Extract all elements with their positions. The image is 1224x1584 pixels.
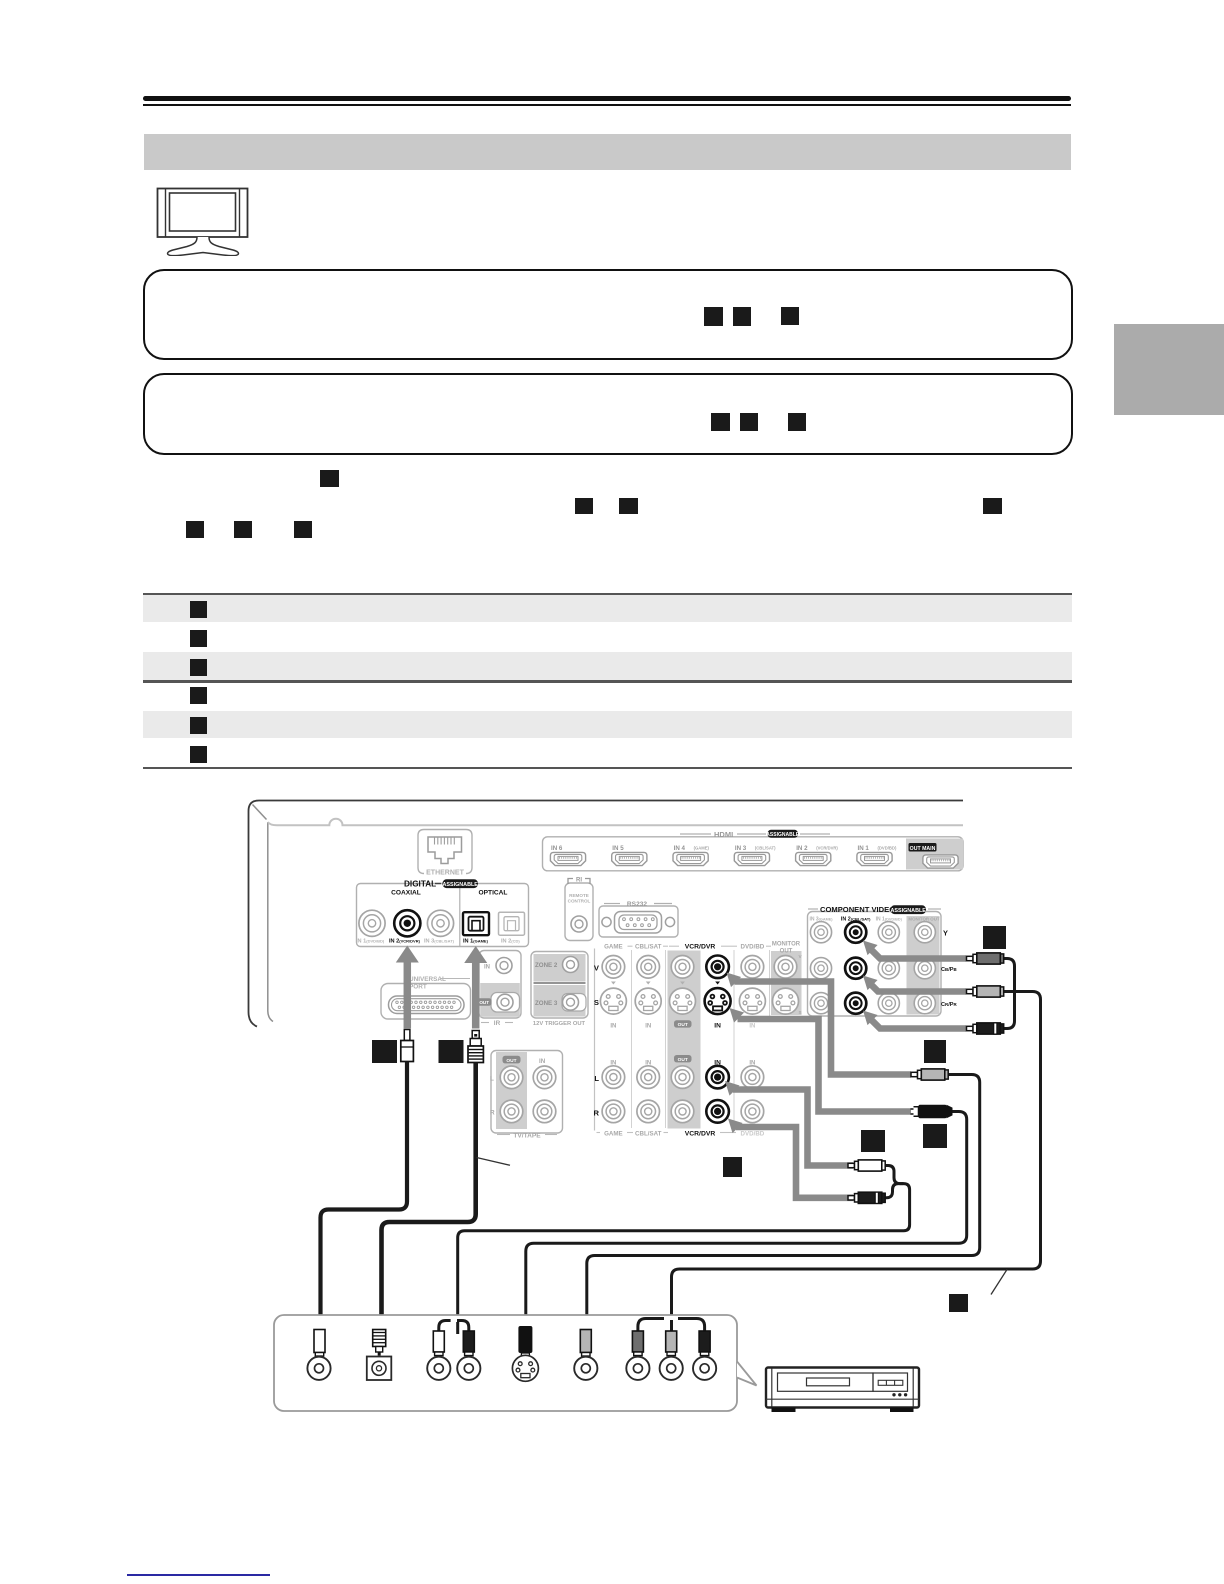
svg-text:CBL/SAT: CBL/SAT (635, 1131, 662, 1138)
audio R jack CBL/SAT (637, 1100, 660, 1123)
svg-text:CONTROL: CONTROL (568, 899, 591, 904)
composite video jack VCR/DVR IN (706, 956, 729, 979)
callout square: bundle (949, 1294, 968, 1312)
svg-text:UNIVERSAL: UNIVERSAL (409, 976, 446, 983)
S-video plug (911, 1105, 953, 1118)
note box 1 (143, 269, 1073, 360)
table (143, 593, 1072, 595)
svg-text:IN: IN (714, 1023, 721, 1030)
svg-text:(GAME): (GAME) (694, 846, 710, 851)
audio R jack VCR/DVR OUT (671, 1100, 694, 1123)
arrow + shaft into component CR IN 2 (863, 1011, 966, 1029)
component triple split (638, 1319, 664, 1332)
arrow + shaft into component CB IN 2 (863, 976, 966, 992)
section title bar (144, 134, 1071, 170)
ASSIGNABLE badge (DIGITAL) (443, 879, 479, 888)
audio L jack CBL/SAT (637, 1066, 660, 1089)
svg-text:GAME: GAME (604, 1131, 623, 1138)
svg-text:VCR/DVR: VCR/DVR (685, 944, 716, 951)
HDMI connector 2 (612, 852, 647, 865)
device CR jack (693, 1357, 716, 1380)
S row IN/OUT labels (610, 1020, 755, 1029)
TV/TAPE IN R jack (533, 1100, 556, 1123)
svg-text:Y: Y (943, 929, 948, 938)
S-video jack GAME (600, 988, 626, 1014)
svg-text:12V TRIGGER OUT: 12V TRIGGER OUT (533, 1021, 586, 1027)
matrix bottom labels (597, 1131, 765, 1138)
svg-text:IR: IR (494, 1020, 501, 1027)
optical cable plug (468, 1031, 483, 1063)
RS232 block (599, 901, 678, 937)
device coaxial jack (307, 1357, 330, 1380)
audio R jack GAME (602, 1100, 625, 1123)
callout square: S-video cable (923, 1124, 947, 1148)
svg-text:VCR/DVR: VCR/DVR (685, 1131, 716, 1138)
component CR plug (red) (967, 1023, 1004, 1034)
svg-text:R: R (490, 1110, 495, 1117)
callout square: audio cable (723, 1157, 742, 1177)
HDMI connector 3 (673, 852, 708, 865)
svg-text:OUT: OUT (780, 949, 793, 955)
svg-text:IN 1(DVD/BD): IN 1(DVD/BD) (356, 939, 385, 945)
composite video plug (yellow) (911, 1069, 948, 1080)
note box 2 (143, 373, 1073, 455)
svg-text:ZONE 2: ZONE 2 (535, 962, 558, 969)
audio R jack DVD/BD (741, 1100, 764, 1123)
svg-text:S: S (799, 1010, 803, 1016)
component CB plug (blue) (967, 986, 1004, 997)
UNIVERSAL PORT block (381, 976, 471, 1019)
ZONE 3 jack (563, 994, 579, 1010)
svg-text:IN 1: IN 1 (858, 845, 870, 852)
svg-text:IN 2(CD): IN 2(CD) (501, 939, 520, 945)
audio L jack VCR/DVR IN (706, 1066, 729, 1089)
svg-text:MONITOR: MONITOR (772, 942, 801, 948)
component CR plug into device (699, 1331, 710, 1362)
matrix top labels (604, 942, 802, 1017)
HDMI connector 6 (857, 852, 892, 865)
callout square: optical cable (439, 1040, 464, 1063)
svg-text:ASSIGNABLE: ASSIGNABLE (891, 908, 927, 914)
arrow + cable path into composite V IN (VCR/DVR) (727, 973, 912, 1075)
HDMI connector 4 (734, 852, 769, 865)
S-video cable (526, 1112, 967, 1335)
svg-text:GAME: GAME (604, 944, 623, 951)
audio R jack VCR/DVR IN (706, 1100, 729, 1123)
svg-text:COMPONENT VIDEO: COMPONENT VIDEO (820, 905, 895, 914)
svg-text:PORT: PORT (409, 984, 427, 991)
S-video jack VCR/DVR OUT (670, 988, 696, 1014)
leader line to cable bundle (991, 1270, 1007, 1295)
coaxial cable plug (401, 1030, 414, 1062)
component CR/PR jack IN 2 (CBL/SAT) (845, 993, 866, 1014)
ETHERNET port (418, 830, 472, 877)
svg-text:RI: RI (576, 878, 582, 884)
device optical jack (367, 1357, 392, 1381)
composite video jack DVD/BD (741, 956, 764, 979)
composite video jack VCR/DVR OUT (671, 956, 694, 979)
optical plug into device (373, 1330, 386, 1356)
svg-text:S: S (594, 998, 599, 1007)
paragraph reference squares (320, 470, 339, 487)
arrow + cable path into S-video IN (VCR/DVR) (730, 1008, 912, 1112)
callout square: component cable (983, 926, 1006, 949)
coaxial jack IN 1 (DVD/BD) (359, 910, 385, 936)
svg-text:OUT: OUT (506, 1058, 516, 1064)
callout square: composite video cable (924, 1040, 946, 1063)
svg-text:IN 4: IN 4 (674, 845, 686, 852)
svg-text:IN 6: IN 6 (551, 845, 563, 852)
TV/TAPE block (490, 1051, 563, 1140)
TV/TAPE IN L jack (533, 1066, 556, 1089)
coax plug into device (314, 1330, 325, 1363)
TV screen (170, 193, 236, 231)
svg-text:ZONE 3: ZONE 3 (535, 1000, 558, 1007)
leader line (cables) (477, 1158, 511, 1166)
TV outer body (158, 189, 248, 238)
svg-text:OUT: OUT (479, 1000, 489, 1005)
svg-text:OUT: OUT (678, 1057, 688, 1063)
svg-text:IN 3(CBL/SAT): IN 3(CBL/SAT) (424, 939, 455, 945)
S-video jack DVD/BD (739, 988, 765, 1014)
audio L jack GAME (602, 1066, 625, 1089)
svg-text:IN 5: IN 5 (612, 845, 624, 852)
IR IN jack (496, 958, 512, 974)
component Y jack MONITOR OUT (914, 922, 935, 943)
component video cable: Y-CR link (1004, 959, 1015, 1029)
svg-text:OUT: OUT (678, 1022, 688, 1028)
audio cable (L+R merge) (885, 1166, 904, 1184)
device CB jack (660, 1357, 683, 1380)
svg-text:COAXIAL: COAXIAL (391, 890, 421, 897)
S-video jack VCR/DVR IN (705, 988, 731, 1014)
svg-text:MONITOR OUT: MONITOR OUT (908, 917, 939, 922)
svg-text:RS232: RS232 (627, 901, 647, 908)
AV receiver rear panel outline (249, 801, 964, 1027)
svg-text:R: R (594, 1108, 600, 1117)
composite video cable (587, 1075, 980, 1335)
component column labels (809, 917, 939, 923)
TV/TAPE OUT badge (503, 1056, 521, 1064)
composite plug into device (580, 1330, 591, 1363)
component CR/PR jack IN 1 (DVD/BD) (878, 993, 899, 1014)
device audio R jack (457, 1357, 480, 1380)
footer link line (127, 1574, 270, 1576)
svg-text:IN: IN (539, 1058, 546, 1065)
COMPONENT VIDEO section box (808, 912, 942, 1017)
AV input matrix group (595, 949, 770, 1131)
audio row IN/OUT labels (610, 1055, 755, 1067)
svg-text:DIGITAL: DIGITAL (404, 880, 436, 889)
TV speaker panels (165, 189, 167, 238)
composite video jack GAME (602, 956, 625, 979)
svg-text:DVD/BD: DVD/BD (741, 944, 765, 951)
svg-text:V: V (799, 954, 803, 960)
callout square: left of S-video (861, 1130, 885, 1152)
svg-text:IN 2(VCR/DVR): IN 2(VCR/DVR) (389, 939, 421, 945)
audio L plug into device (433, 1331, 444, 1362)
component video cable: CB to device (672, 992, 1041, 1335)
component CR/PR jack MONITOR OUT (914, 993, 935, 1014)
svg-text:ASSIGNABLE: ASSIGNABLE (766, 832, 799, 838)
svg-text:HDMI: HDMI (714, 830, 733, 839)
IR OUT badge (477, 998, 492, 1005)
header rule thin (143, 104, 1071, 106)
DVD/VCR player sketch (766, 1368, 919, 1413)
S-video plug into device (518, 1326, 532, 1358)
svg-text:(CBL/SAT): (CBL/SAT) (755, 846, 776, 851)
audio L jack DVD/BD (741, 1066, 764, 1089)
component Y jack IN 2 (CBL/SAT) (845, 922, 866, 943)
device Y jack (626, 1357, 649, 1380)
arrow up optical (464, 946, 487, 1029)
arrow up coaxial (396, 946, 419, 1029)
device composite jack (574, 1357, 597, 1380)
svg-text:DVD/BD: DVD/BD (741, 1131, 765, 1138)
callout square: coaxial cable (372, 1040, 397, 1063)
HDMI connector 1 (550, 852, 585, 865)
audio R plug (red) (848, 1192, 885, 1203)
optical cable (382, 1063, 476, 1335)
svg-text:CBL/SAT: CBL/SAT (635, 944, 662, 951)
S-video jack MONITOR OUT (773, 988, 799, 1014)
DIGITAL section box (357, 884, 529, 947)
arrow + cable path into audio R IN (VCR/DVR) (728, 1119, 853, 1198)
source device connector box (274, 1315, 757, 1411)
ASSIGNABLE badge (component) (891, 905, 927, 914)
device S-video jack (512, 1355, 538, 1381)
coaxial cable (321, 1062, 408, 1335)
HDMI connector 7 (923, 855, 958, 868)
component CB/PB jack IN 3 (GAME) (810, 958, 831, 979)
ZONE 2 / ZONE 3 block (531, 952, 588, 1028)
svg-text:TV/TAPE: TV/TAPE (513, 1133, 541, 1140)
ASSIGNABLE badge (HDMI) (768, 830, 799, 838)
HDMI OUT MAIN badge (909, 843, 937, 852)
svg-text:OUT MAIN: OUT MAIN (910, 846, 936, 852)
composite video jack CBL/SAT (637, 956, 660, 979)
svg-text:IN: IN (610, 1024, 616, 1030)
component CB/PB jack MONITOR OUT (914, 958, 935, 979)
coaxial jack IN 3 (CBL/SAT) (427, 910, 453, 936)
TV/TAPE OUT L jack (500, 1066, 523, 1089)
VCR/DVR OUT column band (668, 951, 701, 1129)
HDMI connector 5 (796, 852, 831, 865)
header rule thick (143, 96, 1071, 101)
TV icon (153, 184, 253, 256)
component CB/PB jack IN 1 (DVD/BD) (878, 958, 899, 979)
svg-text:IN 3: IN 3 (735, 845, 747, 852)
arrow + shaft into component Y IN 2 (863, 941, 966, 959)
component Y jack IN 1 (DVD/BD) (878, 922, 899, 943)
audio R plug into device (463, 1331, 474, 1362)
component Y plug into device (632, 1331, 643, 1362)
svg-text:CB/PB: CB/PB (941, 967, 957, 973)
svg-text:IN: IN (484, 965, 490, 971)
coaxial jack IN 2 (VCR/DVR) (394, 910, 420, 936)
MONITOR OUT column band (771, 951, 802, 1015)
svg-text:L: L (594, 1074, 599, 1083)
svg-text:L: L (490, 1076, 494, 1083)
ZONE 2 jack (563, 957, 579, 973)
svg-text:(DVD/BD): (DVD/BD) (878, 846, 897, 851)
audio L jack VCR/DVR OUT (671, 1066, 694, 1089)
composite video jack MONITOR OUT (774, 956, 797, 979)
TV stand (168, 237, 239, 256)
svg-text:ETHERNET: ETHERNET (426, 870, 464, 877)
svg-text:IN 1(GAME): IN 1(GAME) (463, 939, 489, 945)
component CR/PR jack IN 3 (GAME) (810, 993, 831, 1014)
device audio L jack (427, 1357, 450, 1380)
svg-text:REMOTE: REMOTE (569, 893, 589, 898)
side tab (1114, 324, 1224, 415)
svg-text:OPTICAL: OPTICAL (479, 890, 508, 897)
svg-text:IN: IN (645, 1024, 651, 1030)
component Y jack IN 3 (GAME) (810, 922, 831, 943)
RI remote control block (565, 878, 593, 941)
svg-text:IN: IN (749, 1024, 755, 1030)
HDMI group box (543, 830, 964, 871)
audio pair split (439, 1321, 451, 1332)
RI jack (571, 916, 587, 932)
TV/TAPE OUT R jack (500, 1100, 523, 1123)
audio L plug (white) (848, 1160, 885, 1171)
IR OUT jack (497, 994, 513, 1010)
optical jack IN 1 (GAME) (463, 912, 489, 935)
component row labels (941, 929, 958, 1009)
arrow + cable path into audio L IN (VCR/DVR) (725, 1081, 853, 1166)
component Y plug (green) (967, 953, 1004, 964)
component CB plug into device (666, 1331, 677, 1362)
svg-text:CR/PR: CR/PR (941, 1002, 958, 1008)
matrix top label dashes (628, 945, 772, 947)
svg-text:ASSIGNABLE: ASSIGNABLE (443, 882, 479, 888)
svg-text:(VCR/DVR): (VCR/DVR) (816, 846, 838, 851)
IR block (477, 951, 521, 1028)
component CB/PB jack IN 2 (CBL/SAT) (845, 958, 866, 979)
optical jack IN 2 (CD) (499, 912, 525, 935)
S-video jack CBL/SAT (635, 988, 661, 1014)
svg-text:IN 2: IN 2 (796, 845, 808, 852)
svg-text:V: V (594, 964, 600, 973)
